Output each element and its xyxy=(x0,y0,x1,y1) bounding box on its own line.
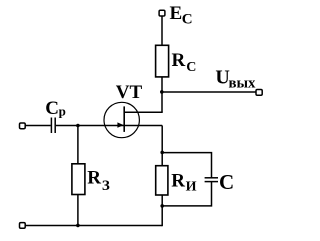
resistor Rc xyxy=(156,45,169,77)
label Cp xyxy=(45,98,66,119)
transistor VT (FET) xyxy=(104,102,139,137)
terminal Ec (top) xyxy=(159,10,165,16)
wire bottom rail xyxy=(25,225,162,227)
node RiC bottom junction xyxy=(160,204,164,208)
wire source node to Ri xyxy=(161,153,163,166)
node gate junction xyxy=(76,124,80,128)
capacitor C xyxy=(205,178,218,182)
wire source bend down to RiC node xyxy=(161,126,163,153)
svg-text:E: E xyxy=(170,3,183,24)
wire Ec to Rc xyxy=(161,16,163,45)
svg-text:R: R xyxy=(87,168,101,189)
node Rz bottom on rail xyxy=(76,224,80,228)
svg-text:C: C xyxy=(45,98,59,119)
svg-text:С: С xyxy=(182,12,193,28)
label Rc xyxy=(172,50,197,75)
wire Rc down to drain bend xyxy=(161,77,163,112)
wire RiC bottom branch xyxy=(162,182,211,206)
svg-text:R: R xyxy=(171,171,185,192)
node source junction xyxy=(160,151,164,155)
svg-text:вых: вых xyxy=(229,75,257,91)
wire RiC node to bottom rail xyxy=(161,206,163,226)
wire drain lead xyxy=(124,111,163,113)
terminal input (top-left) xyxy=(20,123,26,129)
resistor Rz xyxy=(72,164,85,195)
svg-text:З: З xyxy=(102,178,110,194)
svg-text:И: И xyxy=(186,180,197,195)
wire output xyxy=(162,91,256,93)
label Rz xyxy=(87,168,110,194)
svg-text:R: R xyxy=(172,50,186,71)
label Ec xyxy=(170,3,193,28)
wire Rz to bottom rail xyxy=(77,195,79,226)
terminal common (bottom-left) xyxy=(20,223,26,229)
resistor Ri xyxy=(156,166,168,195)
svg-text:С: С xyxy=(186,60,196,75)
svg-text:р: р xyxy=(59,104,66,119)
wire input to Cp xyxy=(25,125,51,127)
label Uout xyxy=(215,67,256,92)
node output junction xyxy=(160,90,164,94)
capacitor Cp xyxy=(51,118,55,134)
label Ri xyxy=(171,171,196,195)
svg-text:VT: VT xyxy=(116,82,143,103)
wire RiC top branch xyxy=(162,153,211,178)
wire gate (Cp to channel and on to source bend) xyxy=(56,125,162,127)
svg-text:C: C xyxy=(219,170,234,194)
wire Ri bottom to node xyxy=(161,195,163,206)
wire gate node down to Rz xyxy=(77,126,79,164)
terminal Uout (right) xyxy=(256,90,262,96)
